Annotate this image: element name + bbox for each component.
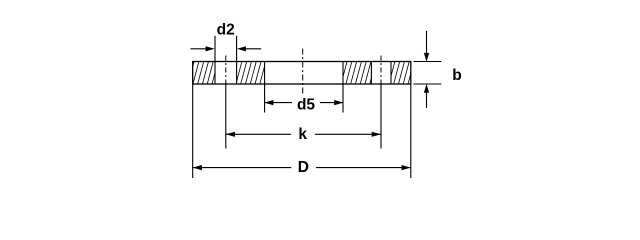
- svg-text:d2: d2: [217, 22, 235, 39]
- hatch section 1 (cut material, x 193-215): [193, 62, 215, 85]
- flange body outline (section rectangle): [193, 62, 411, 85]
- centerline left bolt hole (dashed): [225, 56, 227, 85]
- centerline right bolt hole (dashed): [380, 56, 382, 85]
- hatch section 2 (cut material, x 237-265): [237, 62, 265, 85]
- extension line D left: [192, 84, 194, 178]
- hatch section 3 (cut material, x 343-371): [343, 62, 371, 85]
- bore edges / d5 extension lines: [265, 62, 343, 113]
- hatch section 4 (cut material, x 391-411): [391, 62, 411, 85]
- centerline middle bore (dashed): [302, 49, 304, 97]
- bolt hole right edges: [371, 62, 391, 85]
- dimension d5: [265, 102, 343, 104]
- dimension b: extension lines to the right: [414, 31, 442, 108]
- dimension d2: arrows outside pointing in: [191, 48, 262, 50]
- dimension k: [226, 133, 381, 135]
- dimension D: [193, 167, 411, 169]
- svg-text:d5: d5: [297, 96, 315, 113]
- bolt hole left edges / d2 extension lines: [215, 36, 237, 84]
- extension line D right: [410, 84, 412, 178]
- svg-text:b: b: [452, 67, 461, 84]
- svg-text:D: D: [298, 159, 309, 176]
- extension line k left (bolt centre): [225, 84, 227, 149]
- svg-text:k: k: [298, 126, 307, 143]
- extension line k right (bolt centre): [380, 84, 382, 149]
